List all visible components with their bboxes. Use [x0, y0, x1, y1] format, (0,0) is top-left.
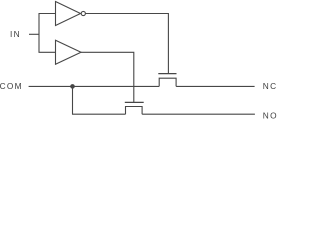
wire NO drain lead [142, 113, 255, 115]
wire buffer output to Q2 gate [81, 52, 134, 102]
buffer U2 [56, 40, 82, 64]
wire NC drain lead [176, 85, 255, 87]
transistor Q1 channel [159, 78, 176, 86]
wire input branch vertical [38, 14, 40, 53]
transistor Q2 channel [126, 107, 143, 115]
wire buffer input [39, 51, 56, 53]
wire IN stub [29, 33, 39, 35]
svg-text:NC: NC [263, 81, 278, 91]
inverter U1 output bubble [81, 11, 85, 15]
wire NO source lead [72, 113, 126, 115]
wire inverter output to Q1 gate [86, 14, 169, 74]
svg-text:NO: NO [263, 110, 278, 120]
svg-text:COM: COM [0, 81, 23, 91]
wire COM line [29, 85, 160, 87]
transistor Q2 gate bar [125, 101, 144, 103]
wire inverter input [39, 13, 56, 15]
node COM junction [70, 84, 75, 89]
inverter U1 [56, 2, 81, 26]
transistor Q1 gate bar [158, 73, 176, 75]
wire junction drop [72, 86, 74, 114]
svg-text:IN: IN [10, 29, 21, 39]
